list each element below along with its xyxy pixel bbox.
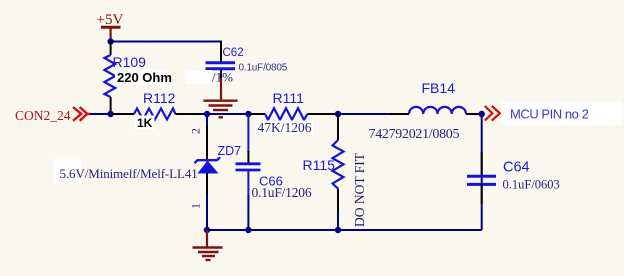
node C66 bottom (245, 227, 251, 233)
node R115 top (335, 111, 341, 117)
svg-text:CON2_24: CON2_24 (15, 108, 71, 123)
svg-text:0.1uF/1206: 0.1uF/1206 (252, 185, 312, 200)
resistor R115 (303, 114, 344, 230)
node ZD7 bottom (204, 227, 210, 233)
svg-text:0.1uF/0603: 0.1uF/0603 (503, 178, 560, 192)
svg-text:R112: R112 (143, 90, 176, 106)
value 47K/1206 (255, 120, 313, 135)
node +5V junction (107, 38, 113, 44)
svg-text:R111: R111 (273, 90, 305, 106)
resistor R109 (104, 42, 146, 115)
svg-text:ZD7: ZD7 (218, 144, 242, 158)
wire output down (481, 114, 483, 230)
wire input (90, 113, 111, 115)
svg-text:R109: R109 (113, 54, 147, 70)
ground C62 (204, 78, 238, 117)
value ZD7 (53, 160, 198, 184)
svg-text:FB14: FB14 (422, 80, 456, 96)
power +5V (97, 12, 124, 42)
svg-text:2: 2 (189, 128, 203, 134)
node output junction (479, 111, 485, 117)
svg-text:/1%: /1% (212, 70, 233, 85)
resistor R112 (111, 90, 201, 120)
svg-text:47K/1206: 47K/1206 (258, 120, 312, 135)
node ZD7 top (204, 111, 210, 117)
port MCU PIN no 2 (485, 101, 622, 125)
wire main node segment (207, 113, 248, 115)
wire to FB14 (338, 113, 390, 115)
node R115 bottom (335, 227, 341, 233)
port CON2_24 (15, 107, 91, 123)
wire R112 to node (201, 113, 207, 115)
svg-text:0.1uF/0805: 0.1uF/0805 (239, 63, 288, 74)
wire bottom rail (207, 229, 482, 231)
ferrite bead FB14 (390, 80, 480, 114)
svg-text:DO NOT FIT: DO NOT FIT (352, 152, 367, 227)
capacitor C66 (236, 114, 312, 230)
capacitor C62 (206, 42, 288, 79)
wire +5V rail (111, 42, 221, 62)
svg-text:R115: R115 (303, 157, 336, 173)
capacitor C64 (467, 152, 560, 204)
ground bottom (193, 230, 223, 260)
value 220 Ohm (115, 70, 172, 86)
svg-text:220 Ohm: 220 Ohm (117, 70, 172, 85)
svg-text:MCU PIN no 2: MCU PIN no 2 (510, 107, 589, 122)
resistor R111 (248, 90, 338, 120)
value /1% (185, 70, 233, 85)
value 1K (135, 116, 155, 131)
zener ZD7 (195, 114, 242, 230)
svg-text:C62: C62 (223, 47, 244, 59)
svg-text:C64: C64 (503, 160, 530, 176)
svg-text:5.6V/Minimelf/Melf-LL41: 5.6V/Minimelf/Melf-LL41 (60, 166, 198, 181)
svg-text:742792021/0805: 742792021/0805 (369, 127, 460, 142)
node C66 top (245, 111, 251, 117)
svg-text:+5V: +5V (97, 12, 124, 28)
svg-text:1K: 1K (137, 116, 153, 130)
node input junction (107, 111, 113, 117)
svg-text:1: 1 (189, 203, 203, 209)
